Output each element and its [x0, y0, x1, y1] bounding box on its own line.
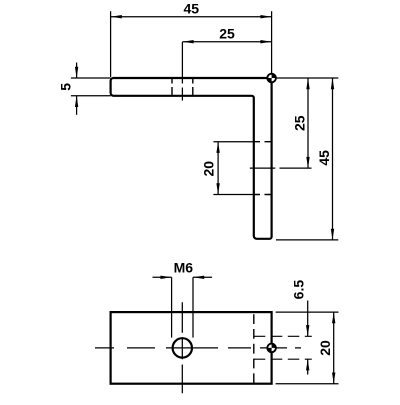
horizontal centerline [95, 347, 301, 349]
svg-text:25: 25 [219, 25, 235, 41]
svg-text:5: 5 [58, 83, 74, 91]
dim 6.5: upper arrow leader [307, 301, 309, 337]
dim 45 top: right arrow [260, 15, 271, 18]
svg-text:20: 20 [317, 340, 333, 356]
dim 25 right: dimension line [307, 78, 309, 168]
right dims bottom extension line [276, 239, 338, 241]
hidden hole line bottom (hole in vertical arm) [254, 194, 271, 196]
hole hidden line top (6.5 hole) [254, 335, 312, 337]
dim 25 right: bottom arrow [306, 157, 309, 168]
dim 45 right: bottom arrow [331, 229, 334, 240]
dim 5 left: extension line bottom [71, 95, 111, 97]
dim 20 bottom: extension line top [276, 311, 339, 313]
dim M6: left arrow leader [153, 276, 172, 278]
hidden hole line left (M6 in top arm) [171, 78, 173, 96]
hidden hole line right (M6 in top arm) [192, 78, 194, 96]
dim 6.5: lower arrow leader [307, 359, 309, 374]
dim M6: right arrow leader [193, 276, 212, 278]
dim 20 front: extension line top [213, 141, 253, 143]
dim 20 front: bottom arrow [216, 183, 219, 194]
svg-text:M6: M6 [174, 260, 194, 276]
right dims top extension line [272, 77, 339, 79]
dim 45 right: top arrow [331, 78, 334, 89]
dim 20 bottom: top arrow [332, 312, 335, 323]
dim 25 top: right arrow [260, 40, 271, 43]
M6 hole circle [173, 338, 192, 357]
dim 5 left: extension line top [71, 77, 111, 79]
corner reference marker (front view) [267, 74, 276, 83]
dim M6: extension line right [192, 277, 194, 337]
part outline rectangle [111, 312, 272, 384]
dim 45 top: extension line right [271, 11, 273, 78]
hidden hole line top (hole in vertical arm) [254, 141, 271, 143]
dim 45 top: left arrow [111, 15, 122, 18]
svg-text:25: 25 [292, 115, 308, 131]
dim 20 front: dimension line [217, 142, 219, 195]
hole centerline horizontal [250, 167, 312, 169]
corner reference marker (top view) [267, 344, 276, 353]
dim 5 left: lower arrow leader [76, 96, 78, 115]
dim 20 front: top arrow [216, 142, 219, 153]
vertical centerline [181, 302, 183, 393]
svg-text:45: 45 [316, 150, 332, 166]
dim 20 front: extension line bottom [213, 194, 253, 196]
dim 5 left: upper arrow leader [76, 63, 78, 79]
hole hidden line bottom (6.5 hole) [254, 358, 312, 360]
dim M6: extension line left [171, 277, 173, 337]
svg-text:6.5: 6.5 [290, 280, 306, 300]
dim 45 right: dimension line [332, 78, 334, 240]
svg-text:45: 45 [184, 1, 200, 17]
dim 20 bottom: dimension line [333, 312, 335, 384]
dim 20 bottom: bottom arrow [332, 373, 335, 384]
dim 25 top: left arrow [182, 40, 193, 43]
svg-text:20: 20 [201, 161, 217, 177]
part outline L-bracket [111, 78, 272, 239]
dim 25 top: dimension line [182, 41, 271, 43]
dim 45 top: extension line left [110, 11, 112, 77]
dim 25 right: top arrow [306, 78, 309, 89]
dim 45 top: dimension line [111, 16, 272, 18]
hole centerline vertical [181, 42, 183, 101]
bend hidden line [253, 314, 255, 384]
dim 20 bottom: extension line bottom [276, 383, 339, 385]
